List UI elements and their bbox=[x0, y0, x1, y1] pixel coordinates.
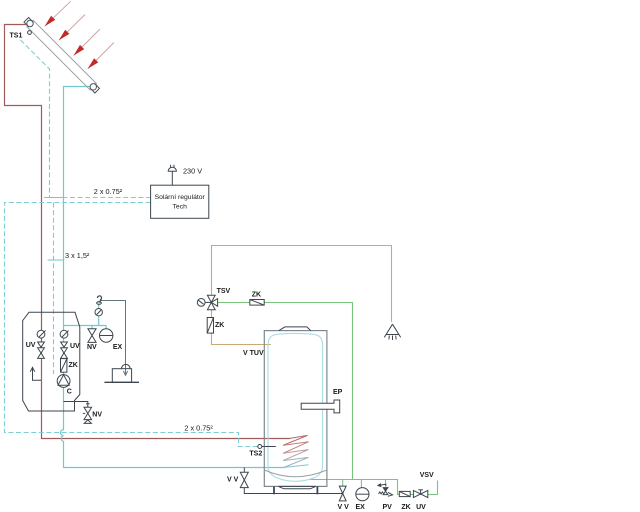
svg-text:ZK: ZK bbox=[215, 322, 224, 329]
svg-text:2 x 0.75²: 2 x 0.75² bbox=[184, 424, 213, 433]
sensor TS1 bbox=[28, 31, 32, 35]
sun arrow 3 bbox=[74, 29, 100, 56]
node: discharge arrowhead bbox=[123, 371, 127, 375]
svg-text:V V: V V bbox=[227, 476, 239, 483]
svg-text:ZK: ZK bbox=[69, 362, 78, 369]
svg-text:VSV: VSV bbox=[420, 472, 434, 479]
sun arrow 1 bbox=[45, 1, 71, 26]
heat exchanger coil bbox=[283, 435, 309, 467]
sensor TS2 bbox=[258, 445, 262, 449]
wire: tan mixed water to shower bbox=[212, 246, 392, 323]
tank stand bbox=[278, 486, 315, 488]
solar regulator U1 bbox=[151, 185, 209, 218]
svg-text:2 x 0.75²: 2 x 0.75² bbox=[94, 187, 123, 196]
svg-text:UV: UV bbox=[70, 343, 80, 350]
wire: dashed sensor cable TS1 to regulator bbox=[21, 40, 151, 198]
power plug P1 bbox=[168, 165, 176, 185]
safety valve SV1 bbox=[97, 296, 102, 304]
thermometer TM1 bbox=[37, 330, 45, 338]
node: leader tick 3x1.5 bbox=[48, 259, 65, 261]
tank inner lining bbox=[268, 333, 323, 481]
valve UV3 bbox=[413, 490, 427, 498]
drain valve VV1 bbox=[240, 472, 248, 487]
expansion vessel EX2 bbox=[356, 488, 369, 501]
wire: dashed sensor cable TS2 to regulator bbox=[5, 203, 258, 447]
solar collector K1 bbox=[23, 17, 100, 94]
wire: cyan solar return pipe collector to pump station with hops bbox=[61, 87, 286, 468]
thermometer TM2 bbox=[60, 330, 68, 338]
svg-text:EX: EX bbox=[356, 504, 366, 511]
svg-text:V TUV: V TUV bbox=[243, 350, 264, 357]
valve NV2 with drain bbox=[83, 404, 92, 424]
svg-text:ZK: ZK bbox=[252, 291, 261, 298]
drain tank B1 bbox=[104, 364, 139, 382]
svg-text:UV: UV bbox=[26, 342, 36, 349]
valve UV2 bbox=[61, 342, 68, 358]
svg-text:UV: UV bbox=[416, 504, 426, 511]
wire: green cold water main bbox=[308, 480, 438, 495]
electric heater EP bbox=[301, 400, 340, 413]
svg-text:230 V: 230 V bbox=[183, 167, 202, 176]
wire: stub to vessel EX2 bbox=[360, 480, 362, 488]
svg-text:Solární regulátor: Solární regulátor bbox=[155, 194, 206, 201]
wire: tan hot water tank to TSV via ZK2 bbox=[212, 310, 271, 345]
valve VV2 bbox=[339, 486, 346, 501]
svg-text:NV: NV bbox=[92, 412, 102, 419]
wire: green cold water to TSV via ZK3 bbox=[217, 303, 352, 480]
wire: dashed pump power cable bbox=[53, 203, 55, 375]
sun arrow 2 bbox=[59, 15, 85, 41]
svg-text:TS2: TS2 bbox=[249, 451, 262, 458]
valve NV1 bbox=[88, 329, 96, 343]
wire: stub to safety valve PV bbox=[385, 480, 387, 485]
svg-text:EP: EP bbox=[333, 389, 343, 396]
svg-text:PV: PV bbox=[383, 504, 393, 511]
check valve ZK3 bbox=[250, 300, 264, 306]
flow indicator F1 bbox=[30, 367, 41, 380]
wire: cyan expansion branch bbox=[64, 325, 107, 327]
svg-text:ZK: ZK bbox=[401, 504, 410, 511]
wire: pump drain tee to valve NV2 bbox=[64, 402, 88, 408]
check valve ZK2 bbox=[207, 318, 213, 334]
wire: floor drain line bbox=[244, 493, 343, 495]
svg-text:V V: V V bbox=[338, 504, 350, 511]
valve UV1 bbox=[38, 342, 45, 358]
expansion vessel EX1 bbox=[100, 329, 113, 342]
wire: stub to valve NV1 bbox=[91, 326, 93, 329]
sun arrow 4 bbox=[88, 43, 114, 69]
svg-text:3 x 1,5²: 3 x 1,5² bbox=[65, 251, 90, 260]
mixing valve TSV bbox=[197, 295, 217, 310]
wire: stub to expansion vessel EX1 bbox=[105, 326, 107, 330]
svg-text:C: C bbox=[67, 389, 72, 396]
wire: safety valve discharge to drain tank bbox=[102, 301, 126, 375]
safety valve PV bbox=[378, 484, 393, 496]
svg-text:TSV: TSV bbox=[217, 288, 231, 295]
tank top flange bbox=[279, 327, 311, 331]
pump C bbox=[57, 375, 70, 388]
wire: gauge stem bbox=[98, 304, 100, 326]
svg-text:TS1: TS1 bbox=[10, 33, 23, 40]
tank foot right bbox=[316, 486, 318, 494]
TS2 pointer bbox=[262, 446, 276, 448]
tank foot left bbox=[273, 486, 275, 494]
wire: red solar supply pipe from collector to tank coil bbox=[5, 25, 291, 439]
tank dished bottom bbox=[264, 470, 327, 477]
shower SH1 bbox=[384, 324, 400, 340]
check valve ZK1 bbox=[61, 359, 67, 373]
svg-text:EX: EX bbox=[113, 344, 123, 351]
wire: drain valve VV1 stub bbox=[243, 468, 245, 494]
check valve ZK4 bbox=[399, 491, 410, 496]
svg-text:NV: NV bbox=[87, 344, 97, 351]
pump station enclosure bbox=[23, 312, 80, 411]
svg-text:Tech: Tech bbox=[173, 204, 188, 211]
node: leader tick 2x0.75 bbox=[44, 197, 65, 199]
storage tank Z1 bbox=[264, 331, 327, 487]
pressure gauge M1 bbox=[95, 309, 102, 316]
wire: stub to valve VV2 bbox=[342, 480, 344, 487]
